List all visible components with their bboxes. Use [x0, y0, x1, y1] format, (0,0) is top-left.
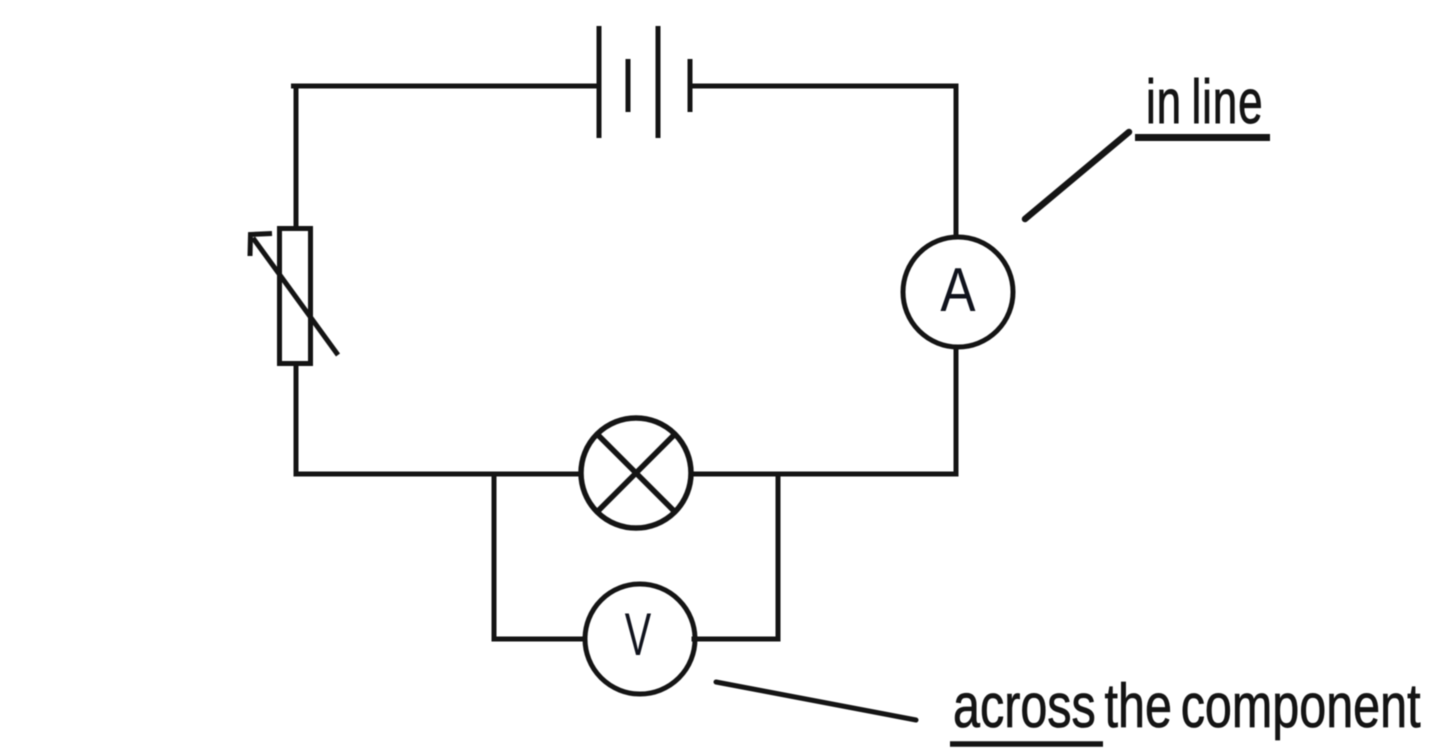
battery B1 short plate (left cell -): [626, 59, 631, 112]
wire voltmeter branch bottom-left horizontal: [494, 637, 586, 642]
wire top-right horizontal: [690, 84, 956, 89]
variable resistor R1 arrow shaft: [253, 238, 338, 355]
underline under "in line": [1135, 134, 1270, 141]
battery B1 long plate (left cell +): [597, 26, 602, 138]
lamp L1 circle: [581, 418, 691, 528]
ammeter A1 circle: [903, 237, 1013, 347]
svg-text:A: A: [940, 256, 976, 325]
wire left lower vertical: [294, 364, 299, 474]
wire voltmeter branch left tap vertical: [492, 474, 497, 639]
wire top-left horizontal: [294, 84, 600, 89]
leader line to voltmeter (across the component): [716, 682, 916, 720]
svg-text:across the component: across the component: [953, 671, 1421, 740]
variable resistor R1 arrow head: [250, 234, 272, 257]
svg-text:V: V: [625, 601, 651, 668]
wire bottom-left horizontal: [296, 472, 581, 477]
leader line to ammeter (in line): [1025, 132, 1129, 219]
battery B1 short plate (right cell -): [688, 59, 693, 112]
svg-text:in line: in line: [1146, 68, 1263, 137]
wire voltmeter branch bottom-right horizontal: [694, 637, 778, 642]
wire voltmeter branch right tap vertical: [776, 474, 781, 639]
wire right upper vertical: [954, 86, 959, 239]
underline under "across": [950, 741, 1103, 747]
wire bottom-right horizontal: [692, 472, 956, 477]
lamp L1 cross stroke 2: [598, 435, 675, 512]
wire left upper vertical: [294, 86, 299, 228]
wire right lower vertical: [954, 347, 959, 474]
lamp L1 cross stroke 1: [598, 435, 675, 512]
voltmeter V1 circle: [585, 584, 695, 694]
variable resistor R1 body: [280, 229, 311, 364]
battery B1 long plate (right cell +): [656, 26, 661, 138]
